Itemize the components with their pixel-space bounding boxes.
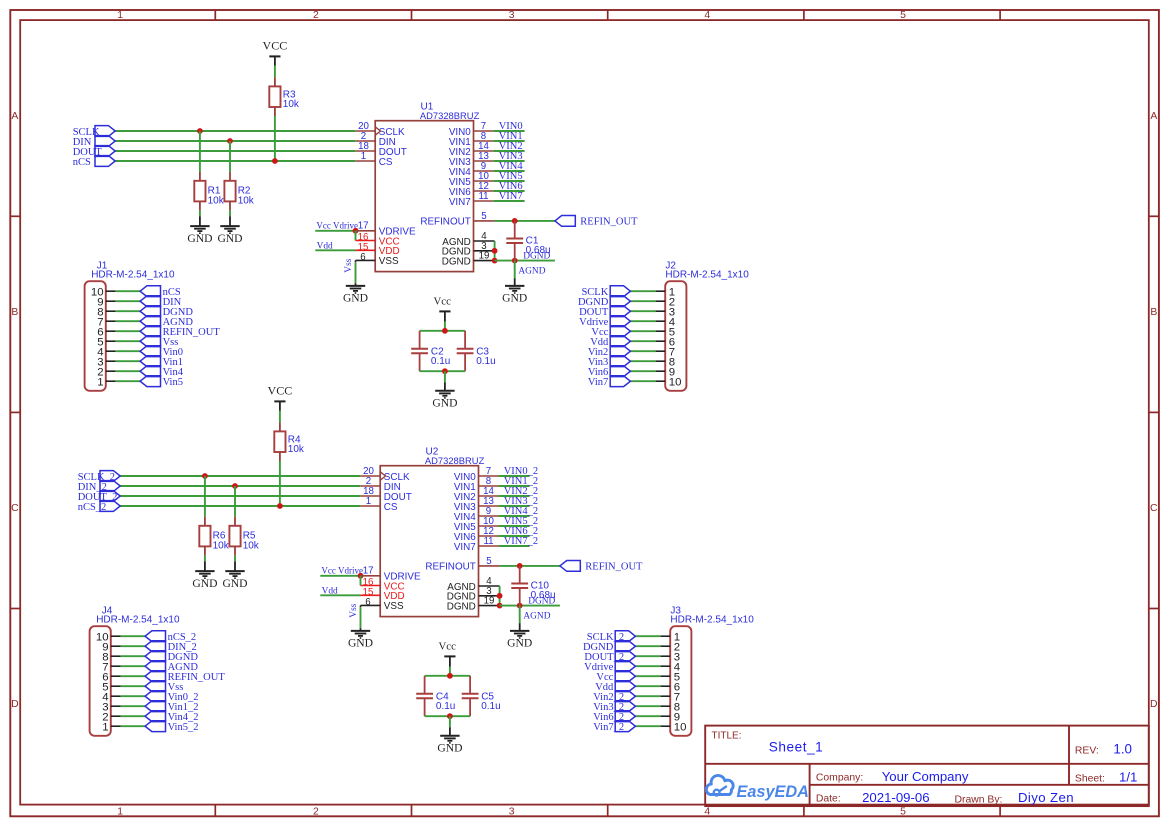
wire J4 pin 7 to flag [121,665,146,667]
svg-text:VCC: VCC [263,38,288,52]
wire cap bottom rail [425,715,471,717]
svg-text:CS: CS [384,502,398,513]
U1 pin 10 VIN5 [449,171,494,188]
wire REFINOUT net [495,220,555,222]
wire cap top rail [420,330,466,332]
wire DGND net [495,252,555,262]
svg-text:2: 2 [313,807,319,818]
J2 pin 5 [656,326,676,338]
svg-text:VIN7: VIN7 [454,542,476,553]
wire DOUT bus [115,150,355,152]
svg-text:5: 5 [481,211,486,222]
wire J1 pin 2 to flag [116,370,141,372]
wire VCC to R3 [274,66,276,78]
svg-text:5: 5 [900,10,906,21]
wire J1 pin 3 to flag [116,360,141,362]
svg-text:10k: 10k [238,195,255,206]
J4 pin 3 [102,701,120,713]
svg-text:REFINOUT: REFINOUT [420,217,470,228]
U2 pin 19 DGND [447,596,500,613]
net flag REFIN_OUT [555,216,638,228]
capacitor C5 0.1u [462,676,501,716]
wire / net label VIN4_2 [498,506,538,517]
U1 pin 15 VDD [356,242,400,257]
U1 pin 7 VIN0 [449,121,494,138]
title block texts [712,731,1138,806]
svg-text:HDR-M-2.54_1x10: HDR-M-2.54_1x10 [665,270,749,281]
svg-text:AGND: AGND [518,267,545,277]
svg-text:10k: 10k [288,444,305,455]
U2 pin 20 SCLK [360,466,410,483]
svg-text:AD7328BRUZ: AD7328BRUZ [425,455,485,466]
junction DGND/C10 [517,603,523,609]
wire J3 pin 10 to flag [635,725,660,727]
wire J2 pin 4 to flag [630,320,655,322]
ground below C10 [507,623,532,650]
wire J1 pin 8 to flag [116,310,141,312]
net flag DOUT [73,146,116,158]
junction cap rail top [447,673,453,679]
wire J2 pin 6 to flag [630,340,655,342]
svg-text:VIN7: VIN7 [449,197,471,208]
resistor R5 10k [229,517,259,556]
net flag Vin1_2 [145,701,198,713]
net flag nCS [140,286,181,298]
ground below decoupling caps [432,382,457,409]
svg-text:Vss: Vss [344,258,354,272]
U2 pin 1 CS [360,496,398,513]
svg-text:10k: 10k [283,99,300,110]
svg-text:19: 19 [484,596,495,607]
net flag Vin0 [140,346,183,358]
svg-text:GND: GND [437,742,462,755]
U1 pin 1 CS [355,151,393,168]
J1 pin 8 [97,306,115,318]
net flag Vdrive [579,316,630,328]
U2 pin 17 VDRIVE [361,566,421,583]
junction SCLK_2/R6 [202,473,208,479]
U1 pin 5 REFINOUT [420,211,494,228]
svg-text:Vcc Vdrive: Vcc Vdrive [316,221,358,231]
U1 pin 3 DGND [442,241,495,258]
svg-text:REFINOUT: REFINOUT [425,562,475,573]
wire J1 pin 1 to flag [116,380,141,382]
net flag DIN_2 [145,641,197,653]
svg-text:C: C [1150,503,1158,514]
svg-text:0.68u: 0.68u [531,590,556,601]
capacitor C1 0.68u [506,221,550,261]
J3 pin 2 [661,641,681,653]
net flag nCS [73,156,116,168]
svg-text:Your Company: Your Company [882,769,969,784]
wire DIN bus [115,140,355,142]
EasyEDA logo [706,775,809,801]
svg-text:HDR-M-2.54_1x10: HDR-M-2.54_1x10 [670,615,754,626]
junction DIN_2/R5 [232,483,238,489]
net flag nCS_2 [78,501,121,513]
net flag Vin2_2 [593,691,635,703]
wire J3 pin 8 to flag [635,705,660,707]
connector J2 HDR-M-2.54_1x10 [665,260,749,390]
svg-text:DGND: DGND [447,601,476,612]
svg-text:17: 17 [358,221,369,232]
wire cap rail to ground [444,371,446,382]
U2 pin 5 REFINOUT [425,556,499,573]
net flag Vin5 [140,376,183,388]
svg-text:HDR-M-2.54_1x10: HDR-M-2.54_1x10 [91,270,175,281]
wire R6 to ground [204,555,206,561]
net flag SCLK [73,126,116,138]
wire cap bottom rail [420,370,466,372]
wire nCS_2 bus [120,505,360,507]
wire / net label VIN0_2 [498,466,538,477]
wire Vss to ground + net label Vss [344,258,356,283]
wire R5 to ground [234,555,236,561]
svg-text:11: 11 [478,191,488,202]
svg-text:Vin5: Vin5 [163,377,183,388]
wire SCLK_2 to R6 [204,476,206,517]
wire J3 pin 9 to flag [635,715,660,717]
wire AGND-DGND tie [499,586,501,606]
svg-text:REFIN_OUT: REFIN_OUT [585,562,643,573]
svg-text:Sheet:: Sheet: [1075,773,1105,784]
J4 pin 1 [102,721,120,733]
J4 pin 9 [102,641,120,653]
svg-text:0.1u: 0.1u [481,701,500,712]
wire J1 pin 6 to flag [116,330,141,332]
net flag DGND [145,651,198,663]
connector J4 HDR-M-2.54_1x10 [90,605,180,735]
svg-text:VSS: VSS [384,601,404,612]
wire / net label VIN3 [493,151,524,162]
net flag Vin3_2 [593,701,635,713]
U2 pin 2 DIN [360,476,401,493]
svg-text:Vdd: Vdd [322,587,338,597]
net flag DIN [73,136,116,148]
net flag Vin4 [140,366,184,378]
net flag DGND [583,641,635,653]
junction cap rail bottom [442,368,448,374]
junction Vcc/U1 pin17 [353,228,359,234]
net flag Vin7 [588,376,630,388]
U2 pin 3 DGND [447,586,500,603]
svg-text:GND: GND [187,232,212,245]
svg-text:A: A [11,111,18,122]
power symbol Vcc (decoupling) [434,295,452,321]
U1 pin 19 DGND [442,251,495,268]
svg-text:GND: GND [217,232,242,245]
svg-text:6: 6 [365,597,370,608]
svg-text:10: 10 [669,376,682,388]
U2 pin 18 DOUT [360,486,411,503]
wire J2 pin 5 to flag [630,330,655,332]
U1 pin 9 VIN4 [449,161,494,178]
junction DGND pin3 [492,248,498,254]
wire J4 pin 6 to flag [121,675,146,677]
wire J1 pin 4 to flag [116,350,141,352]
svg-text:0.1u: 0.1u [431,356,450,367]
wire J2 pin 7 to flag [630,350,655,352]
net flag SCLK_2 [78,471,121,483]
net flag DOUT_2 [78,491,121,503]
svg-text:D: D [1150,699,1158,710]
svg-text:10k: 10k [213,540,230,551]
wire DIN_2 bus [120,485,360,487]
J2 pin 4 [656,316,676,328]
svg-text:1: 1 [102,721,108,733]
J4 pin 5 [102,681,120,693]
svg-text:1/1: 1/1 [1119,769,1137,784]
J4 pin 8 [102,651,120,663]
wire AGND to ground [515,261,546,279]
svg-text:REV:: REV: [1075,745,1099,756]
J4 pin 4 [102,691,120,703]
junction DGND pin3 [497,593,503,599]
J4 pin 6 [102,671,120,683]
J4 pin 7 [102,661,120,673]
wire J4 pin 8 to flag [121,655,146,657]
J1 pin 10 [91,286,116,298]
net labels Vcc Vdrive / wire [320,566,363,576]
svg-text:Sheet_1: Sheet_1 [769,740,824,755]
svg-text:A: A [1150,111,1157,122]
J3 pin 4 [661,661,681,673]
J4 pin 2 [102,711,120,723]
ground below U1 VSS [343,283,368,305]
svg-text:10k: 10k [243,540,260,551]
wire / net label VIN6_2 [498,526,538,537]
wire Vss to ground + net label Vss [349,603,361,628]
svg-text:1: 1 [117,10,123,21]
U1 pin 16 VCC + tie wire [356,231,400,248]
net flag Vss [140,336,178,348]
J3 pin 5 [661,671,681,683]
net flag AGND [140,316,193,328]
svg-text:REFIN_OUT: REFIN_OUT [580,217,638,228]
wire / net label VIN5_2 [498,516,538,527]
J2 pin 10 [656,376,682,388]
wire AGND to ground [520,606,551,624]
svg-text:GND: GND [343,292,368,305]
U2 pin 14 VIN2 [454,486,499,503]
net flag DOUT [579,306,630,318]
junction DGND pin19 [492,258,498,264]
net flag Vdd [595,681,635,693]
svg-text:4: 4 [704,10,710,21]
net flag DOUT_2 [584,651,635,663]
capacitor C4 0.1u [416,676,455,716]
wire DGND net [500,597,560,607]
wire J3 pin 3 to flag [635,655,660,657]
resistor R4 10k [274,422,305,461]
net flag DGND [578,296,630,308]
U1 pin 6 VSS [356,252,399,267]
capacitor C3 0.1u [457,331,496,371]
net flag REFIN_OUT [140,326,220,338]
svg-text:VIN7_2: VIN7_2 [504,536,538,547]
J1 pin 7 [97,316,115,328]
ground below R6 [192,562,217,590]
U1 pin 14 VIN2 [449,141,494,158]
svg-text:GND: GND [502,292,527,305]
svg-text:C: C [11,503,19,514]
power symbol Vcc (decoupling) [439,640,457,666]
wire SCLK to R1 [199,131,201,172]
svg-text:VCC: VCC [268,383,293,397]
ground below U2 VSS [348,628,373,650]
U1 pin 18 DOUT [355,141,406,158]
wire J3 pin 5 to flag [635,675,660,677]
wire J2 pin 1 to flag [630,290,655,292]
net flag Vdrive [584,661,635,673]
svg-text:Vin5_2: Vin5_2 [168,722,199,733]
wire / net label VIN5 [493,171,524,182]
wire / net label VIN3_2 [498,496,538,507]
wire Vcc to cap rail [449,667,451,676]
wire J2 pin 9 to flag [630,370,655,372]
svg-text:10: 10 [674,721,687,733]
net flag Vin1 [140,356,183,368]
wire REFINOUT net [500,565,560,567]
junction SCLK/R1 [197,128,203,134]
junction nCS/R3 [272,158,278,164]
junction nCS_2/R4 [277,503,283,509]
J2 pin 3 [656,306,676,318]
U2 pin 11 VIN7 [454,536,499,553]
svg-text:B: B [11,307,18,318]
wire AGND-DGND tie [494,241,496,261]
wire J2 pin 2 to flag [630,300,655,302]
svg-text:3: 3 [509,807,515,818]
wire Vcc to cap rail [444,322,446,331]
ground below R5 [222,562,247,590]
svg-text:AD7328BRUZ: AD7328BRUZ [420,110,480,121]
svg-text:Vin7: Vin7 [588,377,608,388]
wire / net label VIN4 [493,161,524,172]
svg-text:Vdd: Vdd [317,242,333,252]
svg-text:VIN7: VIN7 [499,191,523,202]
svg-text:EasyEDA: EasyEDA [737,783,809,801]
wire / net label VIN1_2 [498,476,538,487]
svg-text:19: 19 [479,251,490,262]
net flag DGND [140,306,193,318]
net flag Vin6_2 [593,711,635,723]
wire J2 pin 10 to flag [630,380,655,382]
resistor R3 10k [269,77,300,116]
wire cap rail to ground [449,716,451,727]
net flag Vcc [596,671,635,683]
wire / net label VIN2_2 [498,486,538,497]
svg-text:0.1u: 0.1u [436,701,455,712]
net flag Vin3 [588,356,630,368]
wire J2 pin 8 to flag [630,360,655,362]
J1 pin 1 [97,376,115,388]
svg-text:11: 11 [483,536,493,547]
svg-text:GND: GND [432,397,457,410]
svg-text:Company:: Company: [816,772,863,783]
svg-text:Vcc: Vcc [434,295,452,307]
wire J3 pin 4 to flag [635,665,660,667]
svg-text:5: 5 [900,807,906,818]
wire J4 pin 1 to flag [121,725,146,727]
wire SCLK bus [115,130,355,132]
U1 pin 2 DIN [355,131,396,148]
svg-text:VSS: VSS [379,256,399,267]
U1 pin 20 SCLK [355,121,405,138]
svg-text:1: 1 [117,807,123,818]
svg-text:17: 17 [363,566,374,577]
svg-text:GND: GND [507,637,532,650]
wire J4 pin 10 to flag [121,635,146,637]
U2 pin 16 VCC + tie wire [361,576,405,593]
wire J4 pin 2 to flag [121,715,146,717]
U2 pin 7 VIN0 [454,466,499,483]
svg-text:Vcc Vdrive: Vcc Vdrive [321,566,363,576]
connector J3 HDR-M-2.54_1x10 [670,605,754,735]
J3 pin 6 [661,681,681,693]
svg-text:1: 1 [97,376,103,388]
connector J1 HDR-M-2.54_1x10 [85,260,175,390]
wire J3 pin 7 to flag [635,695,660,697]
ground below C1 [502,278,527,305]
wire / net label VIN7 [493,191,524,202]
ground below decoupling caps [437,727,462,754]
svg-text:CS: CS [379,157,393,168]
junction DGND/C1 [512,258,518,264]
U2 pin 15 VDD [361,587,405,602]
U1 pin 8 VIN1 [449,131,494,148]
wire J4 pin 9 to flag [121,645,146,647]
svg-text:AGND: AGND [523,612,550,622]
J1 pin 3 [97,356,115,368]
junction REFINOUT/C10 [517,563,523,569]
J2 pin 2 [656,296,676,308]
J3 pin 10 [661,721,687,733]
wire J4 pin 3 to flag [121,705,146,707]
U2 pin 8 VIN1 [454,476,499,493]
net flag SCLK_2 [587,631,636,643]
net label Vdd / wire [315,242,355,252]
wire / net label VIN6 [493,181,524,192]
J4 pin 10 [96,631,121,643]
J1 pin 2 [97,366,115,378]
wire J3 pin 1 to flag [635,635,660,637]
J3 pin 8 [661,701,681,713]
svg-text:1: 1 [361,151,366,162]
op-amp / ADC U2 AD7328BRUZ [380,446,484,616]
net label Vdd / wire [320,587,360,597]
J2 pin 8 [656,356,676,368]
wire J4 pin 4 to flag [121,695,146,697]
svg-text:3: 3 [509,10,515,21]
U1 pin 11 VIN7 [449,191,494,208]
wire J3 pin 6 to flag [635,685,660,687]
J2 pin 9 [656,366,676,378]
resistor R1 10k [194,172,224,211]
resistor R6 10k [199,517,229,556]
svg-text:Drawn By:: Drawn By: [955,794,1003,805]
J1 pin 6 [97,326,115,338]
wire J2 pin 3 to flag [630,310,655,312]
U1 pin 4 AGND [442,231,494,248]
svg-text:6: 6 [360,252,365,263]
U2 pin 13 VIN3 [454,496,499,513]
wire J3 pin 2 to flag [635,645,660,647]
net flag Vin2 [588,346,630,358]
svg-text:D: D [11,699,19,710]
wire J1 pin 5 to flag [116,340,141,342]
wire R4 to nCS_2 [279,461,281,506]
